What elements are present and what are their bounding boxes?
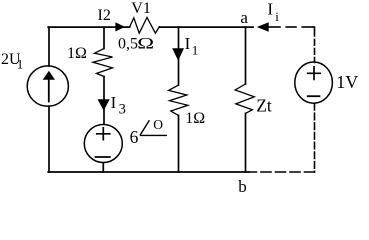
wire bottom — [48, 171, 249, 173]
wire branch2 top stub — [103, 27, 105, 48]
I1 arrowhead — [172, 48, 184, 60]
dashed wire right lower vertical — [314, 104, 316, 173]
angle symbol lines — [140, 120, 167, 135]
voltage source 6 circle — [84, 125, 122, 163]
vs1V minus sign — [308, 95, 320, 97]
vs6 minus sign — [96, 156, 110, 158]
vs1V plus sign — [308, 67, 321, 80]
svg-text:I: I — [111, 93, 117, 112]
I3 arrowhead — [98, 99, 110, 111]
wire left lower — [48, 106, 50, 172]
vs6 plus sign — [97, 128, 110, 140]
voltage source 1V circle — [295, 62, 333, 103]
wire top-left segment — [48, 26, 130, 28]
svg-text:i: i — [275, 9, 279, 24]
wire left upper — [48, 27, 50, 66]
dashed corner elbow top right — [313, 27, 315, 29]
Ii arrowhead — [257, 22, 269, 32]
dashed wire top right (tail + dashes) — [269, 26, 281, 28]
svg-text:b: b — [238, 177, 247, 193]
wire top-right segment after V1 — [159, 26, 253, 28]
wire branch4 top stub from node a — [245, 27, 247, 84]
svg-text:a: a — [240, 8, 248, 27]
svg-text:O: O — [153, 117, 163, 132]
svg-text:Ω: Ω — [137, 35, 154, 53]
wire branch3 top stub with I1 — [178, 27, 180, 85]
resistor 1ohm left (vertical zigzag) — [93, 49, 113, 77]
resistor V1 0,5ohm (horizontal zigzag) — [130, 17, 160, 33]
svg-text:I2: I2 — [98, 7, 111, 24]
wire branch4 bottom stub to node b — [245, 113, 247, 172]
dashed wire right upper vertical — [314, 30, 316, 62]
svg-text:I: I — [267, 0, 273, 19]
svg-text:1Ω: 1Ω — [185, 110, 205, 127]
svg-text:1: 1 — [17, 57, 24, 72]
wire branch3 bottom stub — [178, 116, 180, 173]
current source arrow stem — [48, 79, 50, 102]
svg-text:0,5: 0,5 — [118, 36, 138, 53]
I2 arrowhead — [115, 22, 125, 31]
svg-text:1: 1 — [192, 43, 199, 58]
current source arrowhead — [43, 71, 55, 80]
svg-text:1V: 1V — [336, 72, 358, 92]
svg-text:V1: V1 — [131, 0, 151, 17]
current source U1 circle — [27, 66, 68, 106]
svg-text:1Ω: 1Ω — [67, 45, 87, 62]
resistor Zt (vertical zigzag) — [235, 84, 254, 113]
wire branch2 mid stub with I3 — [103, 77, 105, 124]
wire branch2 bottom stub — [102, 163, 104, 172]
svg-text:6: 6 — [130, 127, 139, 147]
svg-text:3: 3 — [119, 101, 126, 117]
dashed wire bottom right — [250, 171, 315, 173]
resistor 1ohm middle (vertical zigzag) — [169, 85, 188, 116]
svg-text:Zt: Zt — [256, 96, 272, 116]
svg-text:I: I — [185, 34, 191, 53]
